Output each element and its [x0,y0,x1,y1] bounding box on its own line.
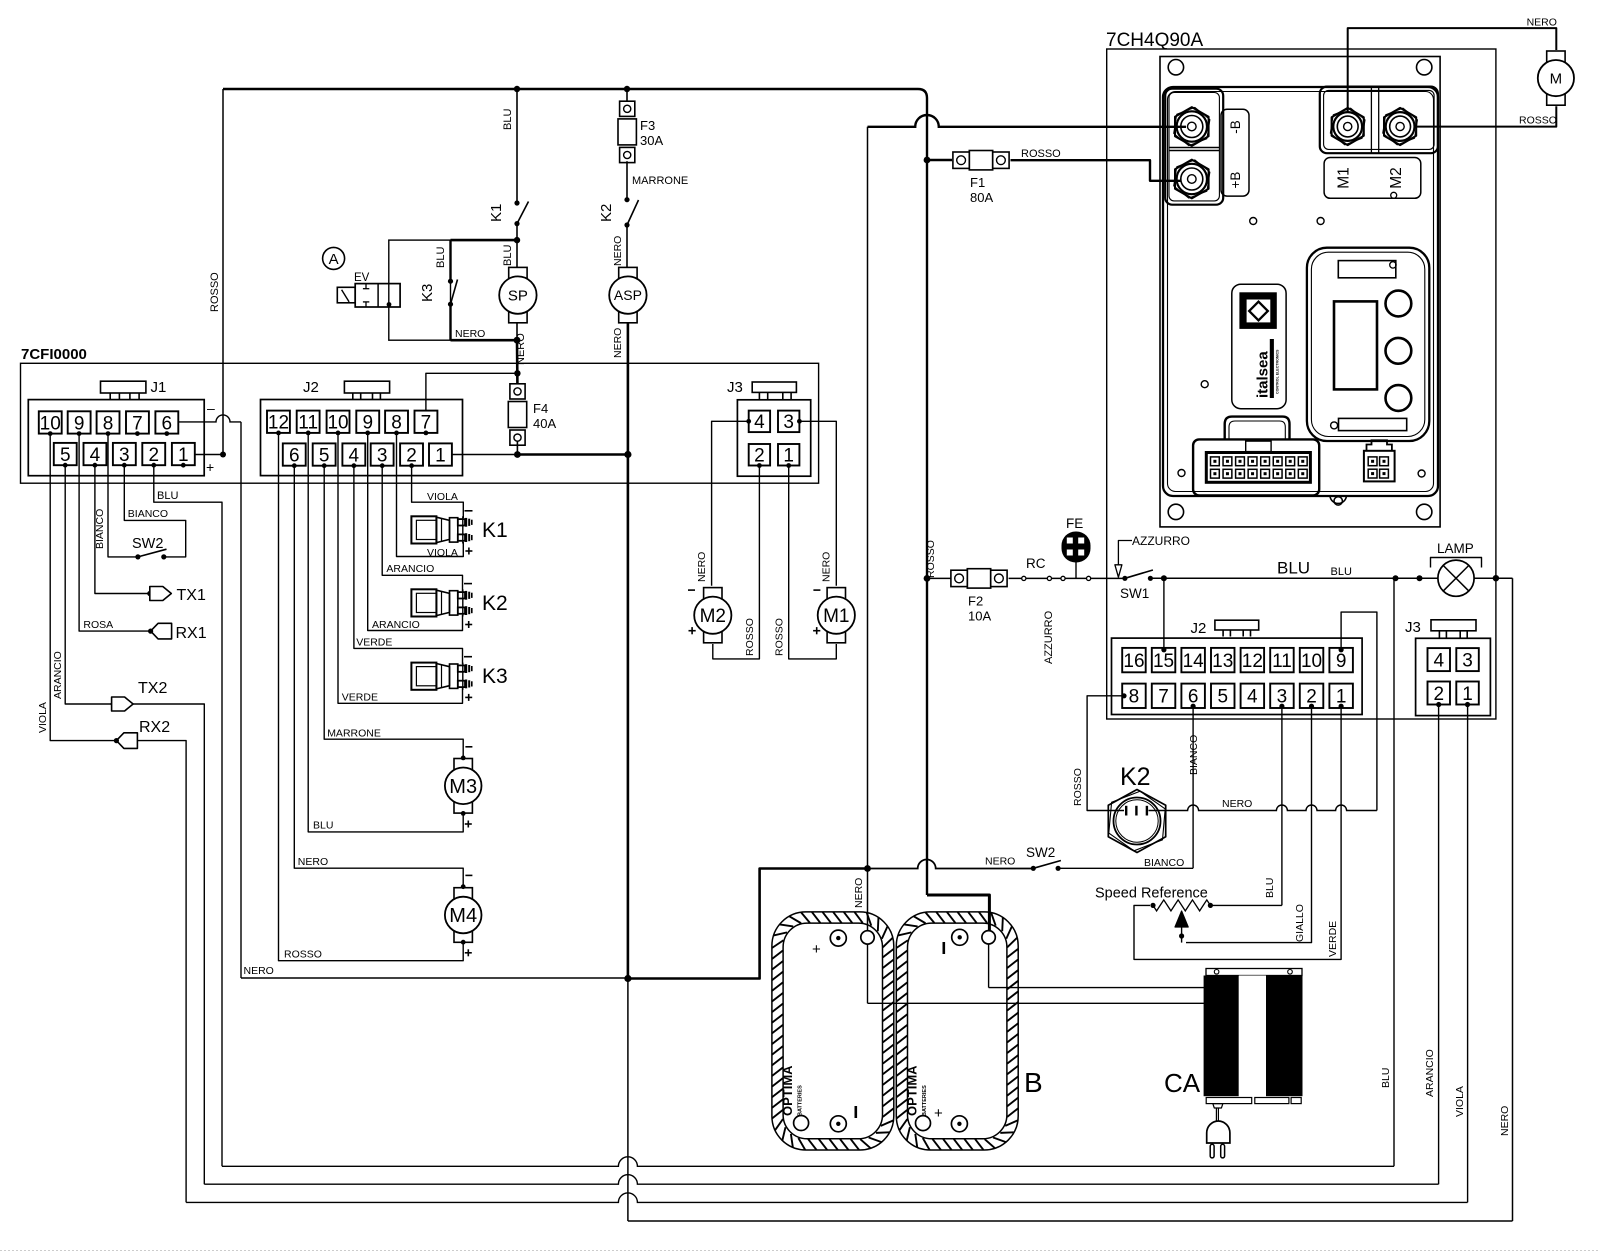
svg-text:7: 7 [421,413,432,434]
svg-text:SW2: SW2 [132,536,163,552]
svg-text:9: 9 [362,413,373,434]
svg-text:10: 10 [327,413,348,434]
svg-text:J3: J3 [1405,619,1421,636]
svg-text:M: M [1550,71,1563,88]
svg-text:VIOLA: VIOLA [427,547,458,559]
svg-text:ROSSO: ROSSO [284,948,322,960]
svg-text:2: 2 [148,445,159,466]
svg-text:J1: J1 [151,379,167,396]
svg-text:3: 3 [783,412,794,433]
svg-text:TX2: TX2 [138,680,167,697]
svg-text:BIANCO: BIANCO [128,508,168,520]
svg-text:FE: FE [1066,516,1083,531]
svg-text:10A: 10A [968,608,991,623]
svg-text:BLU: BLU [502,245,514,266]
svg-text:ROSSO: ROSSO [209,272,221,312]
svg-text:M2: M2 [700,606,726,627]
svg-text:M4: M4 [449,905,477,927]
svg-text:CA: CA [1164,1068,1201,1098]
svg-text:4: 4 [1433,650,1444,671]
svg-text:+: + [934,1105,943,1122]
svg-text:NERO: NERO [696,552,708,582]
svg-text:RX1: RX1 [176,625,207,642]
svg-text:+: + [206,459,214,475]
svg-text:BLU: BLU [1380,1068,1392,1088]
svg-text:40A: 40A [533,416,556,431]
svg-text:K3: K3 [419,284,436,302]
svg-text:5: 5 [319,445,330,466]
svg-text:ROSSO: ROSSO [1519,115,1557,127]
svg-text:NERO: NERO [455,328,485,340]
svg-text:NERO: NERO [612,328,624,358]
svg-text:–: – [207,400,215,416]
svg-text:MARRONE: MARRONE [327,727,381,739]
svg-text:BATTERIES: BATTERIES [922,1085,928,1116]
svg-text:EV: EV [354,272,370,284]
svg-text:+B: +B [1228,172,1243,189]
svg-text:2: 2 [406,445,417,466]
svg-text:NERO: NERO [515,333,527,365]
svg-text:TX1: TX1 [177,587,206,604]
svg-text:RX2: RX2 [139,719,170,736]
svg-text:11: 11 [298,413,318,434]
svg-text:SW2: SW2 [1026,845,1055,860]
svg-text:BLU: BLU [313,820,333,832]
svg-text:F1: F1 [970,175,985,190]
svg-text:ROSSO: ROSSO [1072,768,1084,806]
svg-text:VIOLA: VIOLA [1454,1086,1466,1117]
svg-text:1: 1 [178,445,189,466]
svg-text:BLU: BLU [1264,878,1276,898]
svg-text:2: 2 [1433,684,1444,705]
svg-text:M3: M3 [449,776,477,798]
svg-text:AZZURRO: AZZURRO [1132,534,1190,548]
svg-text:BATTERIES: BATTERIES [798,1085,804,1116]
svg-text:BLU: BLU [435,247,447,268]
svg-text:MARRONE: MARRONE [632,175,688,187]
svg-text:M1: M1 [1336,167,1353,189]
svg-text:GIALLO: GIALLO [1294,904,1306,942]
svg-text:1: 1 [1462,684,1473,705]
svg-text:A: A [329,251,339,268]
svg-text:30A: 30A [640,133,663,148]
svg-text:1: 1 [435,445,446,466]
svg-text:OPTIMA: OPTIMA [905,1065,920,1116]
svg-text:5: 5 [1217,687,1228,708]
svg-text:SP: SP [508,288,528,305]
svg-text:LAMP: LAMP [1437,541,1474,556]
svg-text:VERDE: VERDE [1327,921,1339,957]
svg-text:ARANCIO: ARANCIO [386,563,434,575]
svg-text:VIOLA: VIOLA [427,491,458,503]
svg-text:Speed Reference: Speed Reference [1095,886,1208,902]
svg-text:3: 3 [377,445,388,466]
svg-text:16: 16 [1123,651,1144,672]
svg-text:NERO: NERO [1527,17,1557,29]
svg-text:BLU: BLU [1277,559,1310,578]
svg-text:italsea: italsea [1255,351,1272,398]
svg-text:8: 8 [391,413,402,434]
svg-text:15: 15 [1153,651,1174,672]
svg-text:VIOLA: VIOLA [37,702,49,733]
svg-text:80A: 80A [970,190,993,205]
svg-text:CONTROL ELECTRONICS: CONTROL ELECTRONICS [1276,349,1280,394]
svg-text:K2: K2 [598,204,615,222]
svg-text:4: 4 [754,412,765,433]
svg-text:ARANCIO: ARANCIO [52,651,64,699]
svg-text:NERO: NERO [821,552,833,582]
svg-text:NERO: NERO [985,856,1015,868]
svg-text:10: 10 [1301,651,1322,672]
svg-text:ROSA: ROSA [83,619,113,631]
svg-text:VERDE: VERDE [356,637,392,649]
svg-text:K2: K2 [482,592,508,615]
svg-text:8: 8 [103,413,114,434]
svg-text:BIANCO: BIANCO [1144,857,1184,869]
svg-text:M1: M1 [823,606,849,627]
svg-text:RC: RC [1026,556,1046,571]
svg-text:BIANCO: BIANCO [94,509,106,549]
svg-text:7CFI0000: 7CFI0000 [21,346,87,363]
svg-text:4: 4 [349,445,360,466]
svg-text:-B: -B [1228,120,1243,134]
svg-text:NERO: NERO [612,236,624,266]
svg-text:NERO: NERO [298,856,328,868]
svg-text:VERDE: VERDE [342,692,378,704]
svg-text:13: 13 [1212,651,1233,672]
svg-text:9: 9 [1336,651,1347,672]
svg-text:J2: J2 [1191,620,1207,637]
svg-text:7CH4Q90A: 7CH4Q90A [1106,30,1203,51]
svg-text:OPTIMA: OPTIMA [780,1065,795,1116]
svg-text:3: 3 [119,445,130,466]
svg-text:NERO: NERO [853,878,865,908]
svg-text:BIANCO: BIANCO [1188,735,1200,775]
svg-text:K1: K1 [482,519,508,542]
svg-text:ROSSO: ROSSO [1021,148,1061,160]
svg-text:ROSSO: ROSSO [774,618,786,656]
svg-text:ARANCIO: ARANCIO [1424,1049,1436,1097]
svg-text:BLU: BLU [1331,566,1352,578]
svg-text:6: 6 [289,445,300,466]
svg-text:11: 11 [1272,651,1292,672]
svg-text:+: + [812,941,821,958]
svg-text:K1: K1 [488,204,505,222]
svg-text:12: 12 [268,413,289,434]
svg-text:10: 10 [40,413,61,434]
svg-text:NERO: NERO [244,965,274,977]
svg-text:B: B [1024,1067,1043,1098]
svg-text:ROSSO: ROSSO [744,618,756,656]
svg-text:F4: F4 [533,401,548,416]
svg-text:14: 14 [1183,651,1205,672]
svg-text:SW1: SW1 [1120,586,1149,601]
svg-text:9: 9 [74,413,85,434]
svg-text:ARANCIO: ARANCIO [372,619,420,631]
svg-text:5: 5 [60,445,71,466]
svg-text:J2: J2 [303,379,319,396]
svg-text:6: 6 [162,413,173,434]
svg-text:7: 7 [1158,687,1169,708]
svg-text:F2: F2 [968,593,983,608]
svg-text:M2: M2 [1388,167,1405,189]
svg-text:BLU: BLU [157,490,178,502]
svg-text:7: 7 [132,413,143,434]
svg-text:J3: J3 [727,379,743,396]
svg-text:ASP: ASP [614,287,642,303]
svg-text:3: 3 [1462,650,1473,671]
svg-text:AZZURRO: AZZURRO [1043,610,1055,664]
svg-text:ROSSO: ROSSO [925,540,937,578]
svg-text:NERO: NERO [1222,798,1252,810]
svg-text:NERO: NERO [1499,1106,1511,1136]
svg-text:K3: K3 [482,665,508,688]
svg-text:K2: K2 [1120,763,1151,791]
svg-text:8: 8 [1129,687,1140,708]
svg-text:BLU: BLU [502,109,514,130]
svg-text:4: 4 [1247,687,1258,708]
svg-text:4: 4 [90,445,101,466]
svg-text:F3: F3 [640,118,655,133]
svg-text:12: 12 [1242,651,1263,672]
